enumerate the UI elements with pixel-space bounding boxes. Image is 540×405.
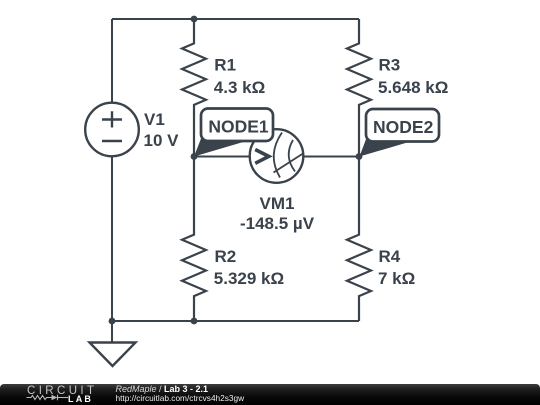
wire: bottom rail (112, 320, 359, 322)
resistor R4 (347, 157, 371, 322)
resistor R1 (182, 19, 206, 157)
value label VM1 -148.5 uV (240, 194, 315, 233)
junction dot: node 1 (191, 153, 198, 160)
footer credit line: RedMaple / Lab 3 - 2.1 (116, 384, 209, 394)
wire: V1 - terminal down left side to bottom rail (111, 157, 113, 322)
svg-text:LAB: LAB (68, 394, 93, 404)
voltmeter VM1 (250, 129, 304, 183)
svg-text:7 kΩ: 7 kΩ (378, 269, 415, 288)
wire: voltmeter right terminal to NODE2 (303, 156, 359, 158)
wire: top rail from V1 to R3 (112, 18, 359, 20)
CircuitLab logo circuit line: resistor + diode (27, 395, 69, 401)
svg-text:4.3 kΩ: 4.3 kΩ (214, 78, 265, 97)
svg-text:R2: R2 (215, 247, 237, 266)
footer url line (116, 393, 246, 403)
svg-text:5.648 kΩ: 5.648 kΩ (378, 78, 448, 97)
node B: NODE2 flag (360, 109, 440, 157)
value label R4 7 kohm (378, 247, 415, 288)
node A: NODE1 flag (194, 109, 273, 157)
svg-text:VM1: VM1 (260, 194, 295, 213)
junction dot: top rail / R1 (191, 16, 198, 23)
svg-text:NODE2: NODE2 (373, 117, 434, 137)
resistor R3 (347, 19, 371, 157)
svg-text:http://circuitlab.com/ctrcvs4h: http://circuitlab.com/ctrcvs4h2s3gw (116, 393, 246, 403)
voltage source V1 (85, 103, 139, 157)
svg-text:10 V: 10 V (144, 131, 180, 150)
svg-text:R3: R3 (379, 56, 401, 75)
svg-text:V1: V1 (144, 110, 165, 129)
svg-text:-148.5 µV: -148.5 µV (240, 214, 315, 233)
CircuitLab logo wordmark LAB (68, 394, 93, 404)
value label R3 5.648 kohm (378, 56, 448, 97)
junction dot: bottom rail / R2 (191, 318, 198, 325)
value label V1 10 V (144, 110, 180, 150)
svg-text:5.329 kΩ: 5.329 kΩ (214, 269, 284, 288)
value label R1 4.3 kohm (214, 56, 265, 97)
footer bar (0, 384, 540, 405)
wire: NODE1 to voltmeter left terminal (194, 156, 250, 158)
svg-text:R1: R1 (214, 56, 236, 75)
svg-text:NODE1: NODE1 (208, 117, 269, 137)
svg-text:R4: R4 (379, 247, 401, 266)
junction dot: bottom rail / ground (109, 318, 116, 325)
junction dot: node 2 (356, 153, 363, 160)
CircuitLab logo wordmark CIRCUIT (27, 385, 97, 397)
ground (90, 321, 136, 366)
wire: left vertical, top rail to V1 + terminal (111, 19, 113, 103)
value label R2 5.329 kohm (214, 247, 284, 288)
resistor R2 (182, 157, 206, 322)
